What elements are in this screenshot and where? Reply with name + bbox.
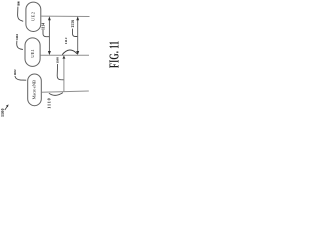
svg-text:1116: 1116 — [71, 20, 75, 28]
svg-text:1112: 1112 — [64, 37, 68, 44]
svg-text:Macro eNB: Macro eNB — [31, 80, 36, 100]
svg-text:1110: 1110 — [47, 98, 52, 109]
svg-text:UE1: UE1 — [30, 49, 35, 58]
svg-text:1114: 1114 — [42, 23, 46, 30]
svg-text:UE2: UE2 — [30, 11, 35, 21]
svg-text:1106: 1106 — [16, 1, 20, 6]
svg-text:1108: 1108 — [56, 57, 60, 64]
svg-text:FIG. 11: FIG. 11 — [108, 41, 121, 68]
svg-text:1104: 1104 — [15, 34, 19, 40]
svg-text:1102: 1102 — [13, 69, 17, 75]
svg-text:1100: 1100 — [0, 109, 5, 118]
